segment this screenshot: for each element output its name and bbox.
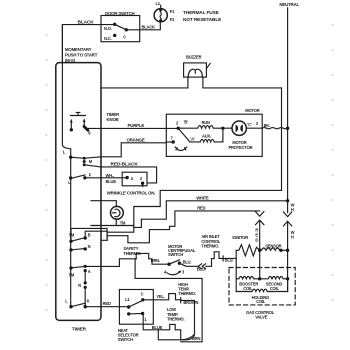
svg-text:PUSH TO START: PUSH TO START (65, 52, 98, 57)
buzzer coil (188, 69, 202, 77)
timer contact A dots (84, 265, 87, 268)
svg-text:BUZZER: BUZZER (186, 55, 202, 60)
door switch box (101, 16, 140, 42)
svg-text:KNOB: KNOB (106, 117, 118, 122)
centrifugal 4-3 throw arc (167, 272, 180, 275)
wire RED staircase to ignitor connector (107, 211, 260, 243)
buzzer wire left (101, 77, 188, 88)
svg-text:THERMO.: THERMO. (167, 317, 185, 322)
svg-text:BLU.: BLU. (183, 259, 192, 264)
svg-text:BLACK: BLACK (142, 25, 156, 30)
timer contact K dot (84, 305, 87, 308)
wire TM exit (71, 228, 107, 241)
svg-text:'C': 'C' (247, 122, 252, 127)
second coil (260, 277, 288, 279)
svg-text:COIL: COIL (270, 286, 280, 291)
junction sensor heater (286, 249, 289, 252)
watermark dots left (46, 34, 48, 311)
svg-text:TM: TM (69, 233, 75, 238)
svg-text:C: C (141, 292, 144, 297)
wire BLACK door C to thermal fuse (126, 22, 160, 30)
svg-text:TIMER: TIMER (72, 326, 87, 332)
svg-text:RUN: RUN (202, 120, 211, 125)
wire B exit (85, 231, 107, 238)
BLU T-bar marker (222, 256, 224, 261)
svg-text:(M-S): (M-S) (65, 58, 76, 63)
heat selector L1 dots (127, 305, 130, 308)
wire ORANGE rail out of timer (84, 143, 166, 159)
svg-text:H: H (291, 234, 294, 239)
svg-text:R: R (78, 283, 81, 288)
wire RED-BLACK rail out of timer to wrinkle box (84, 165, 156, 183)
svg-text:NOT RESETABLE: NOT RESETABLE (183, 17, 222, 23)
svg-text:BLU.: BLU. (197, 266, 206, 271)
NEUTRAL line (287, 8, 289, 201)
watermark dots right (332, 24, 334, 301)
wrinkle terminal 4 (125, 176, 128, 179)
connector red male arrow (256, 212, 264, 217)
svg-text:MOTOR: MOTOR (245, 108, 259, 113)
svg-text:D: D (255, 238, 258, 243)
wire buzzer net zigzag to timer (134, 88, 282, 228)
sensor right dot (279, 249, 282, 252)
gas valve circuit left vertical (235, 250, 237, 291)
ignitor zigzag (236, 245, 260, 256)
svg-text:THERMO.: THERMO. (201, 244, 219, 249)
timer contact A pivot (69, 266, 72, 269)
junction white neutral (286, 199, 289, 202)
junction run-aux (221, 127, 224, 130)
wire RED timer K to heat selector L1 (85, 306, 129, 308)
svg-text:DOOR SWITCH: DOOR SWITCH (105, 11, 135, 16)
wrinkle terminal 2 (141, 182, 144, 185)
heat selector blades (129, 300, 143, 314)
svg-text:TM: TM (69, 273, 75, 278)
wire sensor to heater line (281, 249, 288, 251)
wire to air inlet thermostat (206, 252, 236, 266)
sensor element (261, 248, 279, 250)
wrinkle light TM (111, 206, 124, 219)
timer knob contact 9 blade blob (84, 126, 88, 130)
timer box (56, 63, 101, 321)
svg-text:VALVE: VALVE (255, 315, 268, 320)
buzzer tick (206, 63, 210, 68)
svg-text:THERMO.: THERMO. (123, 251, 141, 256)
svg-text:YEL.: YEL. (156, 294, 164, 299)
svg-text:TM: TM (120, 221, 126, 226)
svg-text:WH.,: WH., (106, 173, 114, 178)
timer contact A blade (71, 266, 85, 268)
motor aux winding (190, 128, 223, 142)
motor box (166, 114, 262, 156)
svg-text:BLUE: BLUE (106, 179, 117, 184)
motor terminal 2 (177, 127, 180, 130)
centrifugal switch right dot (178, 262, 181, 265)
door switch blade N.O. to C (115, 24, 127, 30)
wire WH BLUE timer F to wrinkle terminal 4 (85, 177, 127, 179)
wrinkle control box (122, 172, 147, 186)
svg-text:WRINKLE CONTROL ON.: WRINKLE CONTROL ON. (107, 190, 156, 195)
timer contact L-F pivot (69, 176, 72, 179)
heater connector lower arrow (283, 221, 291, 291)
motor terminal 7 (172, 140, 175, 143)
safety thermostat (136, 253, 169, 264)
door switch N.C. terminal (113, 34, 116, 37)
svg-text:RED: RED (103, 301, 111, 306)
svg-text:BROWN: BROWN (183, 300, 198, 305)
timer knob contact dot left (70, 128, 73, 131)
timer contact N dot (84, 247, 87, 250)
timer contact L pivot bottom (69, 305, 72, 308)
wire chain to timer lower (101, 219, 141, 240)
wire A exit to safety thermostat (85, 259, 136, 267)
timer contact M blade (71, 157, 85, 158)
thermal fuse F1 F2 (154, 9, 167, 22)
svg-text:THERMO.: THERMO. (178, 291, 196, 296)
heater connector white side (287, 201, 289, 213)
svg-text:RED: RED (197, 206, 205, 211)
motor centrifugal actuator arc (175, 147, 187, 151)
svg-text:BLACK: BLACK (78, 20, 95, 26)
wire BLU centrifugal to connector (179, 263, 197, 266)
centrifugal switch left dot BRN (167, 263, 170, 266)
svg-text:COIL: COIL (243, 286, 253, 291)
timer contact K blade (71, 303, 85, 307)
timer knob T-bar symbol (71, 112, 86, 115)
wire BLUE heat selector 1 to low temp thermostat (143, 314, 181, 340)
wire protector to motor C 3 terminal (246, 127, 262, 129)
timer contact M pivot (69, 156, 72, 159)
motor run winding (178, 126, 232, 129)
svg-text:SWITCH: SWITCH (168, 252, 183, 257)
svg-text:N: N (88, 244, 91, 249)
wire BRN swoop (181, 334, 195, 339)
ignitor node dot (258, 249, 261, 252)
svg-text:BK.: BK. (264, 123, 271, 128)
svg-text:BRN: BRN (192, 336, 201, 341)
wire PURPLE timer to motor terminal 2 (87, 127, 179, 129)
wire BLACK from timer to door switch N.O. (62, 25, 114, 63)
junction booster (258, 277, 261, 280)
svg-text:MOMENTARY: MOMENTARY (65, 47, 92, 52)
svg-text:COIL: COIL (256, 299, 266, 304)
svg-text:SWITCH: SWITCH (118, 337, 133, 342)
wire BROWN down (181, 300, 195, 339)
timer contact B dot (84, 236, 87, 239)
gas valve dashed box (229, 268, 295, 305)
heat selector switch box (119, 290, 153, 325)
timer contact F dot (83, 176, 86, 179)
booster coil (236, 277, 260, 279)
junction second coil (286, 277, 289, 280)
svg-text:'A': 'A' (190, 137, 195, 142)
svg-text:B: B (88, 232, 91, 237)
timer contact F blade (71, 175, 85, 178)
heat selector terminal 1 dot (141, 312, 144, 315)
svg-text:AUX.: AUX. (202, 133, 211, 138)
wire branch down to gas valve loop (135, 259, 202, 342)
motor protector circle (232, 121, 246, 135)
motor start blade 2 to aux (178, 128, 190, 142)
buzzer wire right to corner (203, 77, 282, 88)
connector double arrows (198, 264, 205, 269)
svg-text:RED-BLACK: RED-BLACK (111, 162, 139, 168)
svg-text:NEUTRAL: NEUTRAL (279, 2, 299, 7)
connector red female arrow (256, 220, 264, 250)
heat selector C dot (141, 298, 144, 301)
centrifugal switch blade (169, 260, 179, 264)
svg-text:BLU.: BLU. (225, 257, 234, 262)
svg-text:H: H (291, 207, 294, 212)
svg-text:SENSOR: SENSOR (265, 243, 281, 248)
timer contact B blade (71, 238, 85, 242)
buzzer box (184, 63, 207, 77)
svg-text:C: C (123, 34, 126, 39)
svg-text:IGNITOR: IGNITOR (232, 235, 248, 240)
svg-text:WHITE: WHITE (196, 196, 209, 201)
junction BK neutral (286, 127, 289, 130)
svg-text:'B': 'B' (184, 119, 189, 124)
door switch N.O. terminal (113, 23, 116, 26)
timer contact M dots (83, 157, 86, 160)
timer knob plunger right (83, 121, 85, 127)
wire wrinkle light loop bottom (91, 219, 134, 225)
svg-text:N.C.: N.C. (104, 36, 111, 41)
wire R chain (84, 271, 86, 307)
timer contact TM-B pivot (69, 240, 72, 243)
svg-text:ORANGE: ORANGE (127, 138, 145, 143)
wire booster vertical (259, 250, 261, 278)
svg-text:BRN.: BRN. (151, 258, 160, 263)
timer knob plunger left (70, 122, 72, 130)
wire wrinkle light loop top (91, 201, 116, 207)
timer pivot chain vertical (70, 157, 72, 307)
svg-text:PURPLE: PURPLE (128, 123, 145, 128)
timer contact N blade (71, 249, 85, 250)
wire YEL heat selector C to high temp thermostat (143, 294, 181, 300)
wire from push-to-start down inside timer (62, 25, 70, 158)
wire BK motor to neutral (262, 127, 287, 129)
svg-text:K: K (87, 298, 90, 303)
BROWN T-bar marker (180, 298, 182, 303)
svg-text:A: A (88, 269, 91, 274)
svg-text:BLUE: BLUE (152, 325, 163, 330)
timer contact R dots (84, 281, 87, 284)
wire low temp dip segment (158, 330, 184, 340)
wire WHITE to neutral junction (141, 201, 287, 219)
timer contact N pivot (69, 248, 72, 251)
svg-text:N.O.: N.O. (104, 26, 112, 31)
door switch C terminal (125, 28, 128, 31)
svg-text:THERMAL FUSE: THERMAL FUSE (183, 10, 220, 16)
svg-text:PROTECTOR: PROTECTOR (229, 145, 253, 150)
holding coil (236, 279, 287, 292)
L1 terminal stub (160, 5, 162, 8)
wire ORANGE into motor terminal 7 (166, 141, 173, 143)
